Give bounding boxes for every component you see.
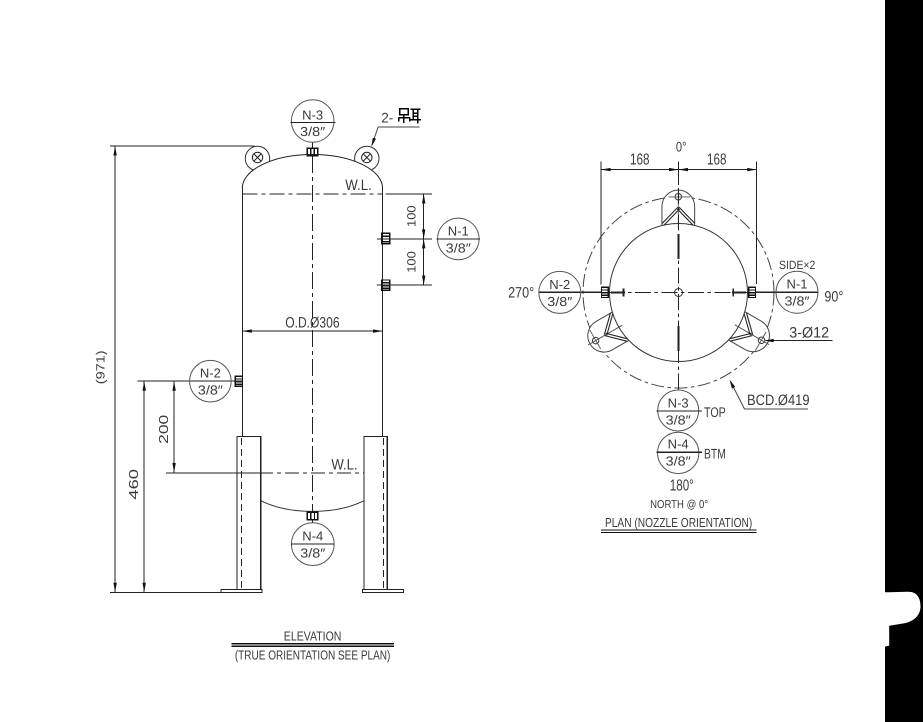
svg-text:100: 100 [405,251,419,273]
svg-text:(971): (971) [93,350,107,384]
svg-text:N-4: N-4 [668,437,689,452]
svg-text:180°: 180° [670,477,694,494]
svg-text:N-1: N-1 [787,277,808,292]
svg-text:NORTH @ 0°: NORTH @ 0° [650,499,708,511]
svg-text:3/8″: 3/8″ [666,413,691,428]
svg-text:168: 168 [707,151,727,168]
svg-text:ELEVATION: ELEVATION [284,629,342,644]
svg-text:0°: 0° [676,139,687,155]
svg-text:(TRUE ORIENTATION SEE PLAN): (TRUE ORIENTATION SEE PLAN) [235,648,391,663]
svg-text:N-2: N-2 [549,277,570,292]
svg-text:3/8″: 3/8″ [666,454,691,469]
svg-text:PLAN (NOZZLE ORIENTATION): PLAN (NOZZLE ORIENTATION) [605,515,752,530]
svg-text:3/8″: 3/8″ [300,124,325,139]
svg-text:100: 100 [405,205,419,227]
svg-text:3-Ø12: 3-Ø12 [789,325,829,342]
svg-text:2-: 2- [381,110,393,126]
svg-text:3/8″: 3/8″ [547,294,572,309]
svg-text:3/8″: 3/8″ [785,294,810,309]
svg-text:168: 168 [630,151,650,168]
svg-text:W.L.: W.L. [345,177,372,194]
svg-text:BTM: BTM [704,445,726,461]
svg-text:N-4: N-4 [302,529,323,544]
svg-text:3/8″: 3/8″ [198,383,223,398]
svg-text:N-1: N-1 [448,223,469,238]
svg-text:N-3: N-3 [668,396,689,411]
svg-text:W.L.: W.L. [331,457,357,474]
svg-text:N-3: N-3 [302,107,323,122]
svg-text:460: 460 [126,469,141,500]
svg-text:N-2: N-2 [200,366,221,381]
svg-text:TOP: TOP [704,404,726,420]
svg-text:SIDE×2: SIDE×2 [779,258,816,272]
svg-text:270°: 270° [508,285,534,302]
svg-text:3/8″: 3/8″ [300,546,325,561]
svg-text:BCD.Ø419: BCD.Ø419 [747,392,810,409]
svg-text:90°: 90° [824,289,843,306]
svg-text:200: 200 [156,415,171,444]
svg-text:3/8″: 3/8″ [446,240,471,255]
svg-text:O.D.Ø306: O.D.Ø306 [285,315,339,332]
